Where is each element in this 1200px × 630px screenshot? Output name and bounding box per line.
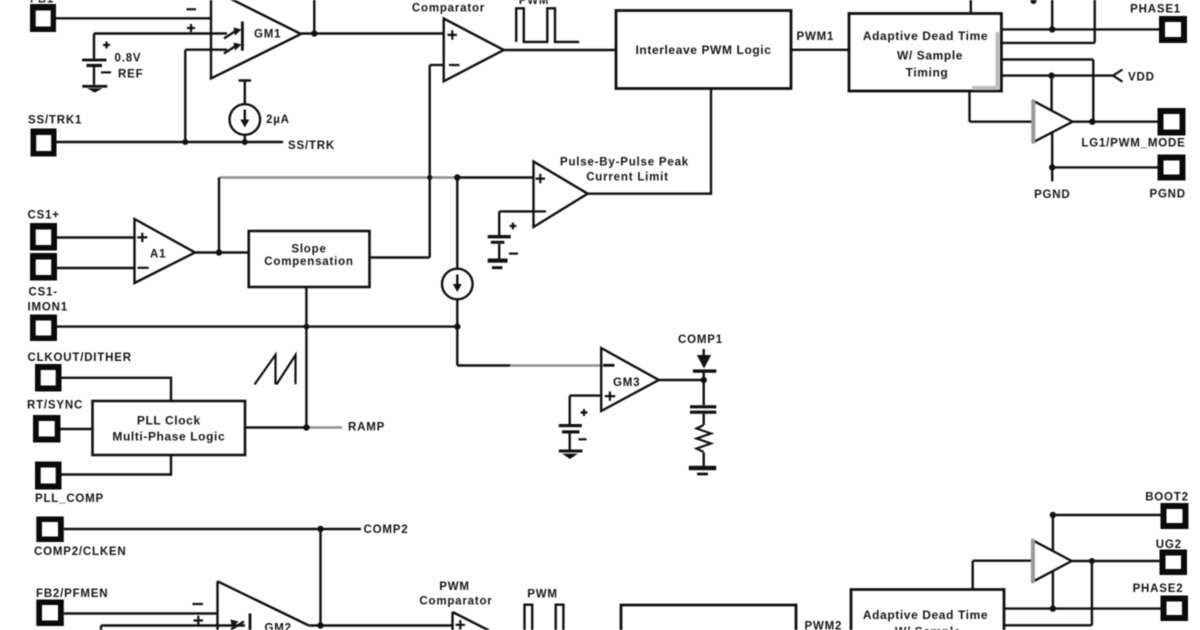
- svg-text:IMON1: IMON1: [28, 302, 68, 314]
- svg-text:RAMP: RAMP: [348, 422, 385, 434]
- svg-text:PGND: PGND: [1034, 189, 1070, 201]
- svg-text:COMP2: COMP2: [364, 524, 409, 536]
- svg-text:SS/TRK1: SS/TRK1: [28, 115, 82, 127]
- svg-text:SS/TRK: SS/TRK: [288, 140, 335, 152]
- svg-text:GM3: GM3: [613, 377, 640, 389]
- svg-text:Adaptive Dead Time: Adaptive Dead Time: [863, 29, 988, 43]
- svg-text:Slope: Slope: [291, 244, 326, 256]
- svg-text:PWM: PWM: [439, 581, 470, 593]
- svg-text:PWM: PWM: [527, 589, 558, 601]
- svg-text:LG1/PWM_MODE: LG1/PWM_MODE: [1081, 138, 1185, 150]
- svg-text:Comparator: Comparator: [419, 596, 492, 608]
- svg-text:W/ Sample: W/ Sample: [897, 49, 963, 63]
- svg-text:Timing: Timing: [906, 66, 949, 80]
- svg-text:Multi-Phase Logic: Multi-Phase Logic: [112, 430, 225, 444]
- svg-text:A1: A1: [150, 249, 166, 261]
- svg-text:PHASE2: PHASE2: [1133, 583, 1184, 595]
- svg-text:PHASE1: PHASE1: [1130, 4, 1181, 16]
- svg-text:W/ Sample: W/ Sample: [895, 625, 961, 630]
- svg-text:FB2/PFMEN: FB2/PFMEN: [36, 588, 108, 600]
- svg-text:PGND: PGND: [1149, 188, 1185, 200]
- svg-text:COMP1: COMP1: [678, 334, 723, 346]
- svg-text:CLKOUT/DITHER: CLKOUT/DITHER: [28, 352, 132, 364]
- svg-text:0.8V: 0.8V: [115, 53, 142, 65]
- svg-text:BOOT2: BOOT2: [1145, 491, 1189, 503]
- svg-text:FB1: FB1: [30, 0, 54, 6]
- svg-text:PWM2: PWM2: [805, 621, 843, 630]
- svg-text:PLL_COMP: PLL_COMP: [35, 493, 104, 505]
- svg-text:2µA: 2µA: [266, 114, 290, 126]
- svg-text:REF: REF: [118, 69, 143, 81]
- svg-text:VDD: VDD: [1128, 72, 1155, 84]
- svg-text:UG2: UG2: [1156, 539, 1182, 551]
- svg-text:COMP2/CLKEN: COMP2/CLKEN: [34, 546, 127, 558]
- svg-text:Adaptive Dead Time: Adaptive Dead Time: [863, 608, 988, 622]
- svg-text:Compensation: Compensation: [264, 256, 353, 268]
- svg-text:PWM: PWM: [519, 0, 550, 7]
- svg-text:CS1-: CS1-: [29, 287, 58, 299]
- svg-text:GM1: GM1: [254, 29, 281, 41]
- svg-text:GM2: GM2: [265, 623, 292, 630]
- svg-text:PWM1: PWM1: [797, 31, 835, 43]
- svg-text:Interleave PWM Logic: Interleave PWM Logic: [635, 43, 771, 57]
- svg-text:PLL Clock: PLL Clock: [137, 414, 201, 428]
- svg-text:Current Limit: Current Limit: [586, 172, 669, 184]
- svg-text:RT/SYNC: RT/SYNC: [27, 400, 83, 412]
- svg-text:Pulse-By-Pulse Peak: Pulse-By-Pulse Peak: [560, 157, 689, 169]
- svg-text:CS1+: CS1+: [28, 210, 60, 222]
- svg-text:Comparator: Comparator: [412, 2, 485, 14]
